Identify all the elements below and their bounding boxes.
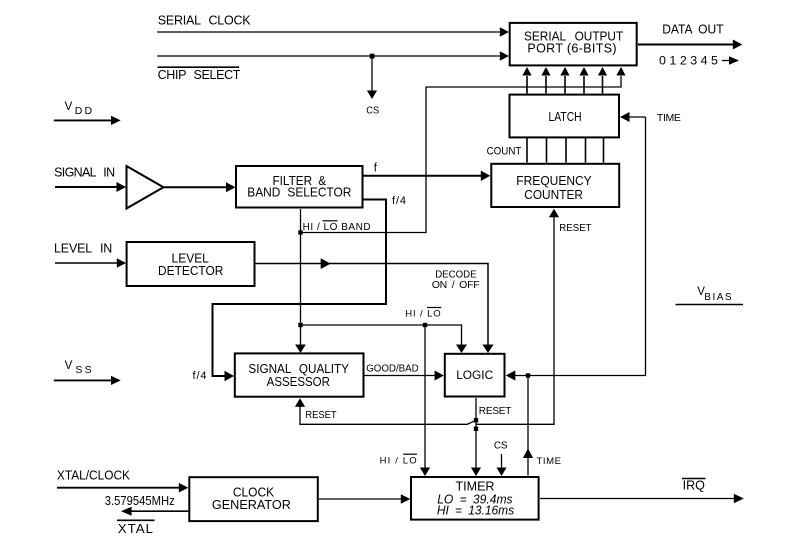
wire XTAL/CLOCK into clock generator	[57, 487, 181, 489]
wire GOOD/BAD: SQA to LOGIC	[364, 375, 437, 377]
svg-text:SIGNAL QUALITY: SIGNAL QUALITY	[248, 362, 349, 376]
node junction TIME at x528	[526, 373, 530, 377]
node switch lower contact	[474, 427, 478, 431]
wire TIME: vertical from latch to logic level	[513, 117, 646, 376]
wire LOGIC reset drop to TIMER	[475, 398, 477, 468]
wire HI/LO BAND drop from filter bottom	[300, 209, 302, 325]
block LOGIC	[445, 354, 505, 397]
wire LEVEL IN to level detector	[55, 262, 118, 264]
wire IRQ output from TIMER	[540, 498, 735, 500]
svg-text:RESET: RESET	[479, 406, 512, 417]
wire VBIAS underline	[676, 304, 744, 306]
svg-text:GOOD/BAD: GOOD/BAD	[366, 362, 419, 374]
svg-text:HI = 13.16ms: HI = 13.16ms	[437, 504, 514, 518]
svg-text:COUNTER: COUNTER	[524, 188, 583, 202]
svg-text:V: V	[65, 360, 73, 372]
block LATCH	[510, 95, 620, 138]
wire RESET rail left to SQA	[300, 406, 467, 424]
svg-text:BIAS: BIAS	[704, 292, 732, 303]
wire f/4 path: filter to signal quality assessor	[213, 200, 387, 377]
svg-text:IRQ: IRQ	[683, 479, 706, 493]
svg-text:f/4: f/4	[193, 370, 207, 382]
node CS junction on chip-select wire	[370, 54, 375, 59]
wire HI/LO branch to logic top	[301, 325, 462, 345]
svg-text:SERIAL CLOCK: SERIAL CLOCK	[158, 14, 251, 28]
svg-text:FREQUENCY: FREQUENCY	[516, 174, 592, 188]
wire clock generator output to TIMER	[319, 498, 402, 500]
wire f output: filter to frequency counter	[364, 175, 483, 177]
svg-text:RESET: RESET	[559, 222, 592, 234]
svg-text:XTAL/CLOCK: XTAL/CLOCK	[57, 467, 130, 482]
block CLOCK GENERATOR	[189, 477, 317, 521]
svg-text:SIGNAL IN: SIGNAL IN	[54, 166, 115, 180]
svg-text:DATA OUT: DATA OUT	[662, 22, 724, 36]
wire CS arrow into TIMER	[501, 454, 503, 468]
svg-text:DD: DD	[75, 105, 93, 117]
svg-text:CHIP SELECT: CHIP SELECT	[158, 68, 241, 82]
svg-text:LATCH: LATCH	[549, 110, 582, 124]
svg-text:PORT (6-BITS): PORT (6-BITS)	[527, 41, 616, 55]
svg-text:0 1 2 3 4 5: 0 1 2 3 4 5	[659, 54, 718, 68]
svg-text:3.579545MHz: 3.579545MHz	[105, 493, 175, 508]
op-amp buffer (signal amplifier triangle)	[127, 166, 164, 209]
wire XTAL return arrow out of clock generator	[130, 510, 188, 512]
wire CS drop with arrow	[371, 56, 373, 91]
node junction HI/LO BAND	[298, 230, 302, 234]
svg-text:COUNT: COUNT	[487, 145, 522, 157]
wire latch to serial port arrows (bits 0-4)	[527, 76, 603, 94]
svg-text:GENERATOR: GENERATOR	[212, 498, 291, 512]
wire amplifier output to FILTER & BAND SELECTOR	[164, 186, 228, 188]
block LEVEL DETECTOR	[127, 242, 255, 286]
wire level detector output / DECODE ON-OFF to logic top	[256, 264, 489, 345]
node junction HI/LO at x300	[298, 323, 302, 327]
wire HI/LO BAND branch up to serial output port (6th bit)	[301, 76, 622, 233]
svg-text:HI / LO BAND: HI / LO BAND	[303, 222, 371, 233]
svg-text:DETECTOR: DETECTOR	[158, 264, 223, 278]
wire SIGNAL IN to amplifier	[55, 186, 118, 188]
svg-text:XTAL: XTAL	[118, 521, 153, 536]
wire TIME arrow into LATCH right	[629, 116, 646, 118]
block TIMER	[411, 477, 539, 520]
block SIGNAL QUALITY ASSESSOR	[235, 353, 364, 396]
svg-text:RESET: RESET	[305, 409, 337, 421]
svg-text:BAND SELECTOR: BAND SELECTOR	[247, 186, 351, 200]
svg-text:CS: CS	[366, 105, 379, 117]
wire HI/LO arrow into SQA top	[300, 325, 302, 345]
wire RESET rail right to frequency counter	[476, 217, 554, 425]
svg-text:TIME: TIME	[657, 112, 681, 124]
svg-text:TIME: TIME	[537, 456, 562, 467]
wire DATA OUT from serial output port	[638, 44, 733, 46]
wire TIME riser from TIMER with inline up arrow	[527, 376, 529, 476]
svg-text:LEVEL IN: LEVEL IN	[54, 242, 112, 256]
wire switch blade	[467, 420, 477, 424]
block FREQUENCY COUNTER	[491, 164, 619, 207]
svg-text:TIMER: TIMER	[456, 480, 495, 494]
svg-text:HI / LO: HI / LO	[405, 308, 441, 319]
wire bit-numbers arrow	[722, 60, 730, 62]
svg-text:LOGIC: LOGIC	[456, 368, 493, 382]
wire SERIAL CLOCK to serial output port	[157, 31, 501, 33]
arrowhead inline on level detector output	[321, 258, 331, 269]
wire HI/LO drop to TIMER	[424, 325, 426, 468]
svg-text:HI / LO: HI / LO	[380, 456, 417, 467]
block FILTER & BAND SELECTOR	[236, 166, 363, 208]
svg-text:CS: CS	[494, 441, 508, 452]
wire VDD arrow	[54, 119, 112, 121]
svg-text:V: V	[65, 101, 73, 113]
block SERIAL OUTPUT PORT	[510, 23, 637, 66]
node switch upper contact	[474, 418, 478, 422]
wire frequency counter to latch lines (count bus)	[527, 138, 604, 163]
wire VSS arrow	[54, 379, 112, 381]
svg-text:ON / OFF: ON / OFF	[432, 279, 480, 291]
svg-text:f/4: f/4	[392, 195, 406, 207]
wire CHIP SELECT to serial output port	[157, 55, 501, 57]
node junction HI/LO at x425	[423, 323, 427, 327]
svg-text:ASSESSOR: ASSESSOR	[267, 375, 330, 389]
